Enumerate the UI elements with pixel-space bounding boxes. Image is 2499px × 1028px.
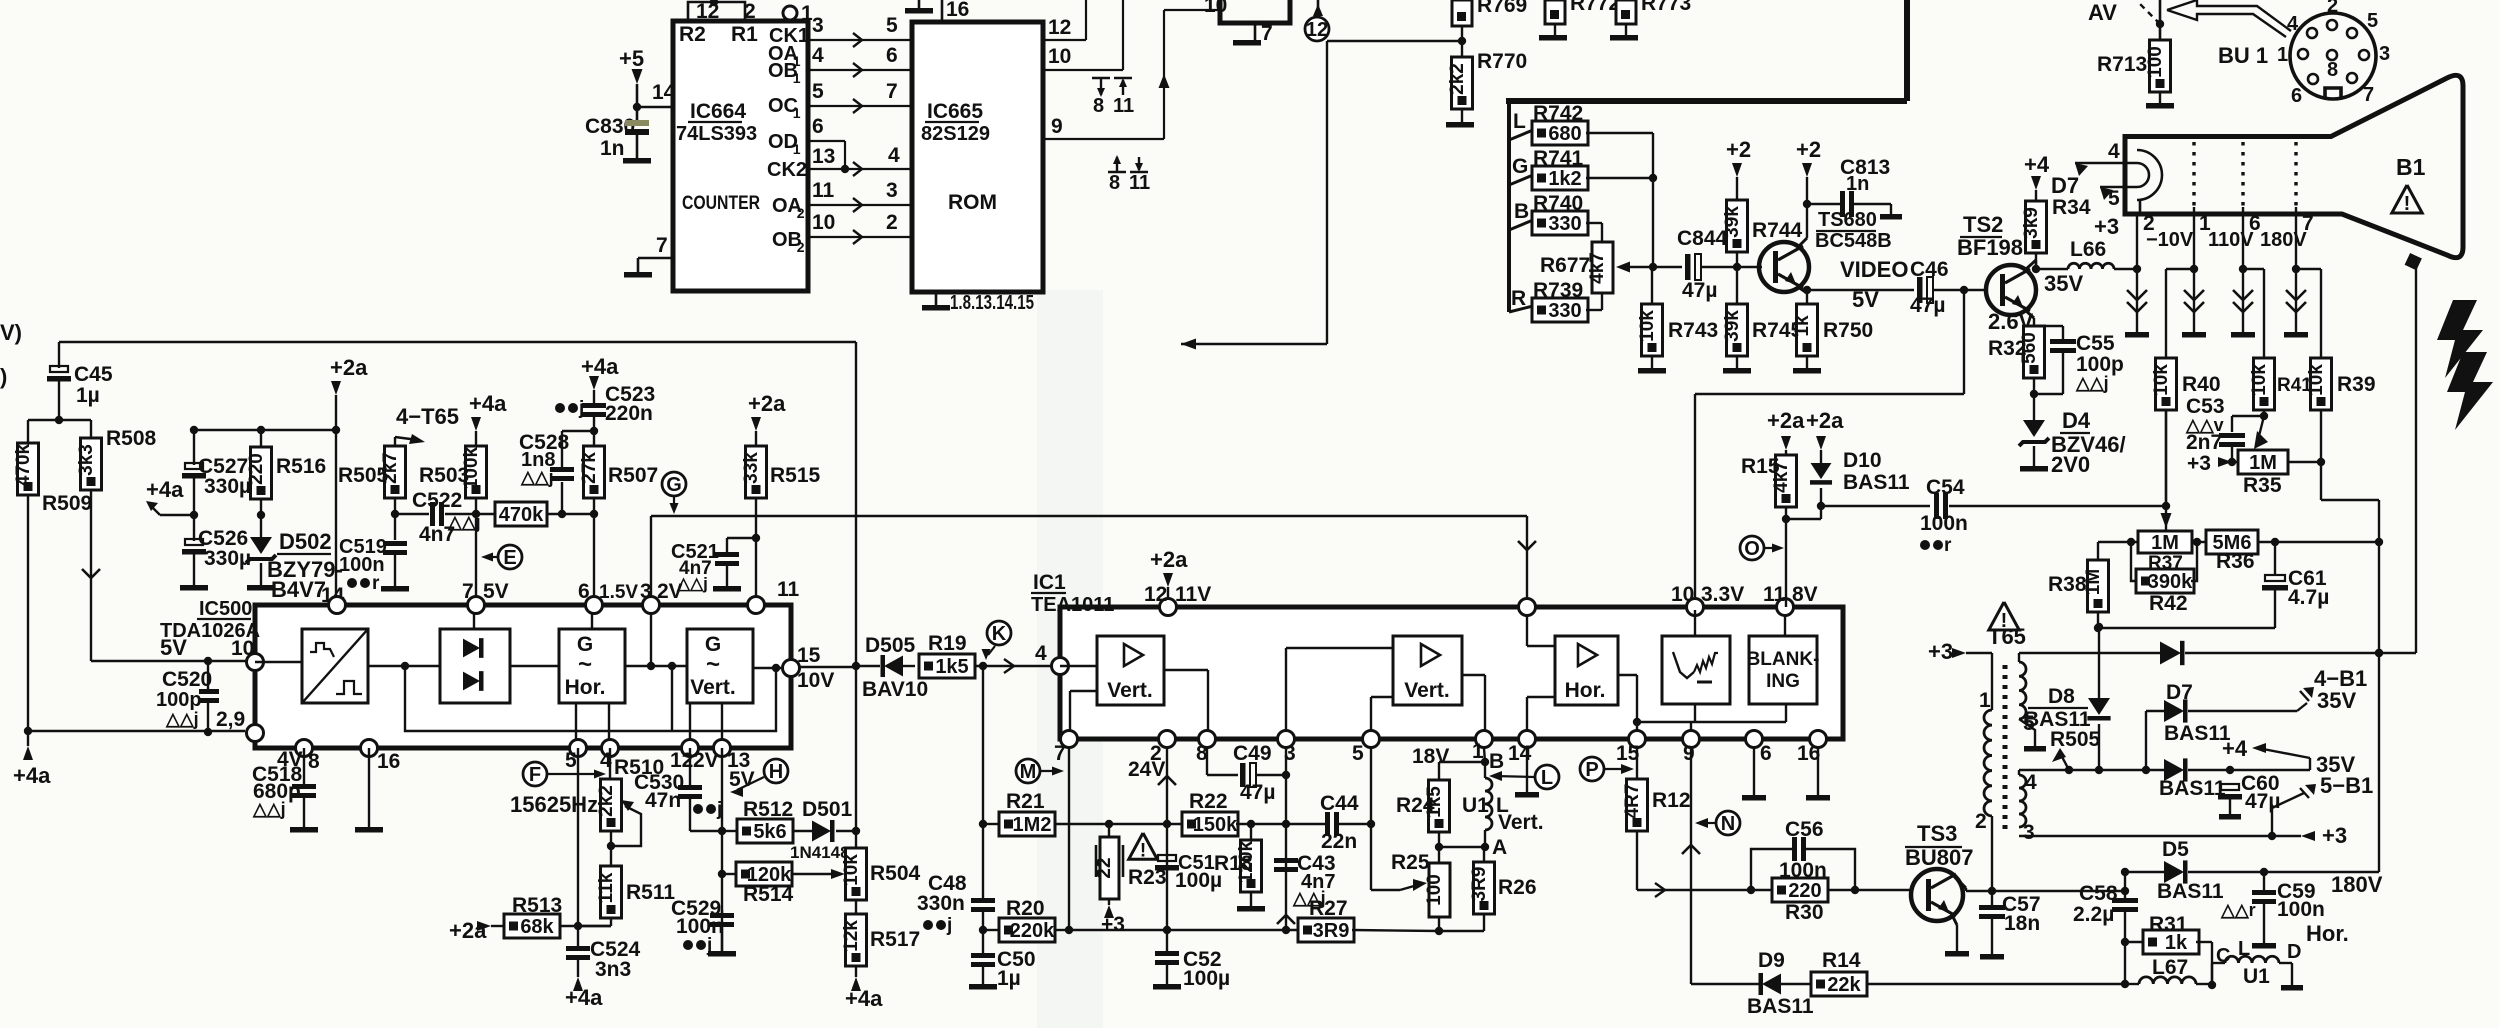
svg-text:4: 4: [812, 44, 824, 67]
IC1 sawtooth top lead: [1694, 610, 1696, 636]
svg-text:8: 8: [2327, 59, 2338, 81]
CRT warning triangle: [2392, 185, 2422, 213]
IC500 pin 4 bottom: [602, 740, 619, 757]
ground below C526: [180, 585, 208, 591]
capacitor C52 100u: [1155, 951, 1179, 956]
capacitor C54 100n: [1821, 505, 1930, 507]
svg-text:8: 8: [1109, 172, 1120, 194]
svg-text:R1: R1: [731, 23, 758, 46]
svg-text:TS2: TS2: [1963, 212, 2003, 237]
capacitor C43 4n7: [1274, 858, 1298, 863]
svg-text:VIDEO: VIDEO: [1840, 257, 1908, 282]
svg-text:68k: 68k: [520, 916, 554, 938]
CRT pin 1 wire: [2193, 207, 2195, 269]
CRT grid pin 4 wire and D7 arrow: [2075, 162, 2137, 164]
ground below C830: [623, 158, 651, 164]
svg-text:D502: D502: [279, 529, 332, 554]
IC1 pin 1 bottom: [1476, 731, 1493, 748]
RGB cable bracket: [1507, 101, 1511, 312]
wire 2V rail from IC500 pin3 to IC1 pin13: [651, 515, 1527, 517]
svg-text:R35: R35: [2243, 474, 2282, 497]
svg-text:4k7: 4k7: [1587, 252, 1608, 284]
svg-text:2: 2: [797, 205, 805, 221]
svg-text:220: 220: [1788, 880, 1821, 902]
svg-text:4: 4: [2025, 771, 2037, 794]
arrow from C54 node down to R37: [2161, 513, 2172, 528]
svg-text:+4a: +4a: [581, 354, 619, 379]
svg-text:IC664: IC664: [690, 100, 746, 123]
svg-text:ROM: ROM: [948, 191, 997, 214]
svg-text:+4: +4: [2222, 736, 2248, 761]
svg-text:9: 9: [1051, 115, 1063, 138]
svg-text:R18: R18: [1214, 852, 1253, 875]
svg-text:82S129: 82S129: [921, 123, 990, 145]
bracket tap G: [1509, 175, 1533, 185]
svg-text:2: 2: [2327, 0, 2338, 17]
zener diode D4 BZV46/2V0: [2033, 394, 2035, 420]
wire CK1 pin3 to ROM pin5: [808, 39, 912, 41]
svg-text:100n: 100n: [1920, 512, 1968, 535]
svg-text:3: 3: [812, 14, 824, 37]
svg-text:BAS11: BAS11: [2164, 722, 2231, 745]
transformer T65 primary winding: [1991, 653, 1993, 710]
svg-text:1: 1: [2277, 44, 2288, 66]
potentiometer R510 2k2: [609, 748, 611, 779]
svg-text:2V: 2V: [657, 580, 683, 603]
svg-text:100: 100: [2145, 46, 2166, 78]
wire R505 bottom: [394, 498, 396, 514]
arrow 4-B1 35V: [2297, 703, 2307, 711]
IC500 double diode block: [440, 629, 510, 703]
IC1 pin 10 top: [1687, 599, 1704, 616]
IC1 pin14 lead to hor: [1526, 697, 1528, 730]
IC500 vert block bottom leads: [689, 703, 691, 740]
svg-text:3k9: 3k9: [2021, 207, 2042, 239]
svg-text:CK2: CK2: [767, 159, 807, 181]
svg-text:ING: ING: [1766, 671, 1800, 692]
resistor R36 5M6: [2206, 530, 2258, 554]
svg-text:BU807: BU807: [1905, 845, 1973, 870]
svg-text:+3: +3: [1101, 913, 1125, 936]
CRT pin 6 wire: [2242, 207, 2244, 269]
svg-text:1n: 1n: [600, 137, 625, 160]
svg-text:~: ~: [578, 651, 592, 678]
transistor TS2 BF198: [1986, 265, 2036, 315]
svg-text:TDA1026A: TDA1026A: [160, 620, 260, 642]
svg-text:3R9: 3R9: [1313, 920, 1350, 942]
transformer T65 secondary winding pin5: [2018, 653, 2020, 662]
svg-text:15: 15: [797, 644, 821, 667]
resistor R507 27k: [584, 446, 605, 498]
svg-text:R38: R38: [2048, 573, 2087, 596]
resistor R505 2k7: [385, 446, 406, 498]
CRT pin 1 arrow to ground: [2190, 265, 2198, 273]
IC500 pin 11 top: [748, 597, 765, 614]
resistor R773: [1616, 0, 1636, 24]
svg-text:D4: D4: [2062, 408, 2091, 433]
resistor R713 100: [2150, 40, 2171, 92]
svg-text:100n: 100n: [2277, 898, 2325, 921]
IC500 vert to pin15 wire: [753, 667, 783, 669]
wire IC500 pin15 to D505 junction: [799, 666, 856, 668]
CRT cathode dotted grids: [2192, 142, 2195, 207]
svg-text:1M: 1M: [2151, 532, 2179, 554]
capacitor C524 3n3: [577, 926, 579, 946]
svg-text:11: 11: [777, 578, 800, 601]
svg-text:1: 1: [793, 141, 801, 157]
IC665 bottom ground and pins 1.8.13.14.15: [935, 292, 938, 305]
IC500 vert oscillator block: [687, 629, 753, 703]
svg-text:BAV10: BAV10: [862, 678, 928, 701]
IC1 pin5 wire down to R25: [1370, 748, 1372, 890]
IC1 pin 2 bottom: [1159, 731, 1176, 748]
svg-text:7: 7: [1261, 22, 1273, 45]
arrow up on pin9 wire: [1159, 74, 1170, 88]
svg-text:10k: 10k: [1637, 310, 1658, 342]
IC1 hor output to pin15: [1618, 674, 1637, 676]
svg-text:3.3V: 3.3V: [1701, 583, 1744, 606]
svg-text:R15: R15: [1741, 455, 1780, 478]
svg-text:4R7: 4R7: [1622, 784, 1643, 819]
svg-text:△△j: △△j: [252, 799, 286, 819]
resistor R506 470k: [495, 502, 547, 526]
svg-text:R750: R750: [1823, 319, 1873, 342]
IC1 pin 13 top: [1519, 599, 1536, 616]
wire R37 right junction: [2193, 538, 2201, 546]
svg-text:5V: 5V: [1852, 287, 1879, 312]
svg-text:D10: D10: [1843, 449, 1882, 472]
svg-text:IC1: IC1: [1033, 571, 1066, 594]
svg-text:2: 2: [1975, 810, 1987, 833]
svg-text:R42: R42: [2149, 592, 2188, 615]
wire R36 node down the right: [2378, 542, 2380, 872]
svg-text:U1: U1: [1462, 794, 1489, 817]
svg-text:P: P: [1585, 759, 1598, 781]
svg-text:8V: 8V: [1792, 583, 1818, 606]
svg-text:+4a: +4a: [146, 477, 184, 502]
IC664 pin 1 circle: [783, 6, 797, 20]
svg-text:11: 11: [1129, 172, 1150, 194]
IC500 pin 15 right: [783, 660, 800, 677]
svg-text:+2a: +2a: [449, 918, 487, 943]
ground near pin16: [905, 8, 933, 14]
svg-text:10k: 10k: [2306, 364, 2327, 396]
svg-text:14: 14: [652, 81, 676, 104]
svg-text:R40: R40: [2182, 373, 2221, 396]
thick boundary line top: [1506, 98, 1907, 104]
IC500 diode block top lead: [473, 613, 475, 629]
partial IC box top middle: [1220, 0, 1290, 23]
resistor R32 560: [2024, 326, 2045, 378]
svg-text:4: 4: [1035, 642, 1047, 665]
IC IC665 82S129 ROM box: [912, 22, 1043, 292]
IC500 pin 7 top: [468, 597, 485, 614]
svg-text:U1: U1: [2243, 965, 2270, 988]
IC1 vert1 output wire: [1164, 669, 1208, 671]
TS3 collector wire: [1956, 878, 1966, 888]
svg-text:C44: C44: [1320, 792, 1359, 815]
svg-text:R25: R25: [1391, 851, 1430, 874]
svg-text:16: 16: [377, 750, 400, 773]
svg-text:24V: 24V: [1128, 758, 1165, 781]
resistor R26 3R9: [1474, 862, 1495, 914]
IC1 pin 4 left: [1052, 658, 1069, 675]
svg-text:+3: +3: [1928, 639, 1953, 664]
resistor R34 3k9: [2026, 201, 2047, 253]
IC1 pin2 wire down: [1166, 748, 1168, 952]
wire circled12 to R770: [1327, 40, 1462, 42]
IC664 top reset loop wire pins 12 2: [688, 2, 745, 21]
svg-text:1M: 1M: [2249, 452, 2277, 474]
ground below R750: [1793, 368, 1821, 374]
svg-text:1k: 1k: [2165, 932, 2188, 954]
svg-text:390k: 390k: [2148, 571, 2193, 593]
svg-text:+2: +2: [1796, 137, 1821, 162]
circled node O: [1740, 536, 1764, 560]
wire R508 down to 5V pin 10 line: [90, 490, 92, 661]
svg-text:47µ: 47µ: [2245, 790, 2280, 813]
IC IC664 74LS393 counter box: [673, 21, 808, 291]
resistor R39 10k: [2311, 358, 2332, 410]
svg-text:~: ~: [706, 651, 720, 678]
IC1 pin 11 top: [1777, 599, 1794, 616]
svg-text:C49: C49: [1233, 742, 1272, 765]
svg-text:8: 8: [1093, 95, 1104, 117]
ground pin 7: [624, 272, 652, 278]
svg-text:11: 11: [1763, 583, 1786, 606]
svg-text:R517: R517: [870, 928, 920, 951]
svg-text:100µ: 100µ: [1183, 967, 1230, 990]
svg-text:12: 12: [1144, 583, 1167, 606]
resistor R18 120k: [1241, 840, 1262, 892]
svg-text:+2a: +2a: [1806, 408, 1844, 433]
svg-text:1.8.13.14.15: 1.8.13.14.15: [950, 292, 1034, 314]
svg-text:470k: 470k: [499, 504, 544, 526]
svg-text:!: !: [1140, 840, 1146, 861]
svg-text:D505: D505: [865, 634, 916, 657]
svg-text:220: 220: [246, 453, 267, 485]
svg-text:8: 8: [308, 750, 320, 773]
svg-text:9: 9: [1683, 742, 1695, 765]
svg-text:7: 7: [462, 580, 474, 603]
IC1 pin1 wire down: [1484, 748, 1485, 762]
svg-text:18n: 18n: [2004, 912, 2040, 935]
svg-text:+2a: +2a: [1150, 547, 1188, 572]
bracket tap L: [1509, 130, 1533, 140]
svg-text:39k: 39k: [1722, 206, 1743, 238]
wire OD1 pin6 to CK2 junction: [808, 140, 845, 142]
svg-text:6: 6: [578, 580, 590, 603]
svg-text:3: 3: [640, 580, 652, 603]
svg-text:11: 11: [1113, 95, 1134, 117]
svg-text:D7: D7: [2166, 681, 2193, 704]
svg-text:BAS11: BAS11: [2024, 708, 2091, 731]
IC1 pin 7 bottom: [1061, 731, 1078, 748]
svg-text:M: M: [1020, 761, 1037, 783]
svg-text:N: N: [1721, 813, 1735, 835]
wire R38 C61 bottom rail: [2098, 627, 2275, 629]
svg-text:Vert.: Vert.: [690, 676, 736, 699]
svg-text:2: 2: [744, 0, 756, 23]
R505 wiper arrow at T65: [2052, 748, 2066, 762]
circled node P: [1580, 757, 1604, 781]
IC665 pin 12 wire: [1043, 39, 1086, 41]
svg-text:10: 10: [812, 211, 835, 234]
wire C844 to TS680 base: [1737, 266, 1762, 268]
IC1 vert2 output to pin1: [1462, 674, 1485, 676]
svg-text:10: 10: [1671, 583, 1694, 606]
vertical link C58 to D5 line: [2124, 872, 2126, 891]
svg-text:L: L: [2238, 938, 2250, 960]
secondary pin4 output rail: [2019, 769, 2069, 771]
svg-text:220k: 220k: [1010, 920, 1055, 942]
svg-text:R32: R32: [1988, 337, 2027, 360]
svg-text:C844: C844: [1677, 227, 1728, 250]
svg-text:△△j: △△j: [520, 467, 554, 487]
svg-text:R34: R34: [2052, 196, 2091, 219]
IC500 pin 14 top: [329, 597, 346, 614]
svg-text:IC500: IC500: [199, 598, 252, 620]
IC665 pin 16 wire: [941, 0, 944, 22]
svg-text:R22: R22: [1189, 790, 1228, 813]
IC500 pin 5 bottom: [570, 740, 587, 757]
svg-text:TS680: TS680: [1818, 209, 1877, 231]
pulse symbols 8 11 lower: [1108, 171, 1126, 173]
R677 wiper arrow: [1625, 266, 1653, 268]
svg-text:11k: 11k: [596, 872, 617, 903]
svg-text:1µ: 1µ: [997, 967, 1021, 990]
inductor U1 L Vert: [1485, 778, 1492, 830]
capacitor C59 100n: [2263, 872, 2265, 890]
svg-text:110V: 110V: [2208, 229, 2254, 251]
svg-text:Hor.: Hor.: [565, 676, 606, 699]
svg-text:+4: +4: [2024, 152, 2050, 177]
svg-text:BAS11: BAS11: [1747, 995, 1814, 1018]
svg-text:3: 3: [2379, 43, 2390, 65]
IC500 pin 6 top: [586, 597, 603, 614]
ground below R745: [1723, 368, 1751, 374]
zener diode D502 BZY79-B4V7: [260, 515, 262, 537]
secondary top rectifier diode to 180V rail: [2019, 652, 2160, 654]
collector rail to C58 D5: [2121, 887, 2129, 895]
svg-text:△△j: △△j: [2075, 373, 2109, 393]
svg-text:1.5V: 1.5V: [599, 582, 638, 603]
wire TS2 base feedback to IC1 pin 10: [1963, 290, 1965, 394]
IC1 pin 6 bottom: [1746, 731, 1763, 748]
svg-text:22n: 22n: [1321, 830, 1357, 853]
svg-text:470k: 470k: [13, 443, 34, 486]
CRT grid pin 5 wire and +3 arrow: [2100, 186, 2137, 188]
capacitor C57 18n: [1991, 891, 1993, 905]
svg-text:35V: 35V: [2044, 271, 2083, 296]
wire vertical x856 from top rail to D501: [855, 342, 857, 831]
diode D6 BAS11: [2164, 759, 2184, 781]
svg-text:A: A: [1492, 836, 1507, 859]
svg-text:150k: 150k: [1193, 814, 1238, 836]
IC IC1 TEA1011 box: [1060, 607, 1843, 739]
svg-text:2n7: 2n7: [2186, 431, 2222, 454]
svg-text:7: 7: [2363, 84, 2374, 106]
wire CRT pin6 branch to R41: [2243, 268, 2264, 270]
svg-text:R514: R514: [743, 883, 794, 906]
svg-text:+4a: +4a: [845, 986, 883, 1011]
IC1 pin 14 bottom: [1519, 731, 1536, 748]
svg-text:2: 2: [886, 211, 898, 234]
ground below D502: [247, 585, 275, 591]
wire R12 down to R30: [1636, 831, 1638, 890]
resistor R38 1M: [2088, 560, 2109, 612]
IC500 pin 2 9 left: [247, 725, 264, 742]
diode D10 BAS11: [1820, 460, 1822, 463]
wire R39 node down to 5M6 line: [2320, 462, 2322, 500]
svg-text:6: 6: [1760, 742, 1772, 765]
ground below C60: [2219, 814, 2241, 820]
svg-text:R743: R743: [1668, 319, 1718, 342]
svg-text:2,9: 2,9: [216, 708, 245, 731]
capacitor C55 100p: [2034, 325, 2063, 327]
svg-text:5: 5: [1352, 742, 1364, 765]
svg-text:100: 100: [1424, 874, 1445, 906]
wire R503 bottom to IC500 pin 7: [475, 498, 477, 596]
svg-text:R19: R19: [928, 632, 967, 655]
TS3 emitter to ground: [1952, 915, 1957, 925]
circled node L: [1535, 765, 1559, 789]
ground below R713: [2146, 103, 2174, 109]
wire CK2 pin13 to ROM pin4: [808, 168, 912, 170]
IC500 hor oscillator block: [559, 629, 625, 703]
TS680 emitter wire VIDEO 5V: [1798, 287, 1807, 293]
pulse symbols 8 11 upper: [1092, 77, 1110, 79]
IC500 pin16 ground: [368, 748, 370, 827]
svg-text:D: D: [2287, 941, 2301, 963]
svg-text:4: 4: [2287, 13, 2299, 35]
svg-text:j: j: [578, 398, 584, 419]
circled node F: [523, 762, 547, 786]
resistor R30 220: [1772, 878, 1828, 902]
IC IC500 TDA1026A box: [255, 605, 791, 748]
svg-text:680: 680: [1548, 123, 1581, 145]
IC500 pin3 internal lead: [650, 613, 652, 666]
svg-text:B1: B1: [2396, 154, 2426, 180]
wire +2a down to IC500 pin 14: [335, 430, 337, 596]
R35 wiper arrow from R41: [2259, 416, 2264, 436]
resistor R517 12k: [846, 914, 867, 966]
svg-text:330: 330: [1548, 300, 1581, 322]
svg-text:3: 3: [886, 179, 898, 202]
svg-text:BU 1: BU 1: [2218, 43, 2268, 68]
svg-text:10k: 10k: [841, 854, 862, 886]
R25 wiper arrow: [1400, 886, 1414, 890]
CRT electron gun arcs: [2137, 150, 2162, 213]
bracket tap R: [1509, 306, 1533, 312]
resistor R15 4k7: [1776, 455, 1797, 507]
svg-text:47µ: 47µ: [1910, 294, 1945, 317]
wire to R508: [59, 419, 91, 421]
svg-text:AV: AV: [2088, 0, 2117, 25]
svg-text:E: E: [503, 547, 516, 569]
svg-text:O: O: [1744, 538, 1760, 560]
svg-text:G: G: [1512, 155, 1528, 178]
capacitor C51 100u: [1158, 855, 1176, 861]
svg-text:R12: R12: [1652, 789, 1691, 812]
CRT pin 7 arrow to ground: [2292, 265, 2300, 273]
IC500 sync separator block: [302, 629, 368, 703]
transformer T65 core: [2003, 665, 2008, 830]
IC1 internal bus to sawtooth and blanking: [1637, 721, 1786, 723]
svg-text:6: 6: [2291, 85, 2302, 107]
resistor R772: [1545, 0, 1565, 24]
svg-text:R39: R39: [2337, 373, 2376, 396]
